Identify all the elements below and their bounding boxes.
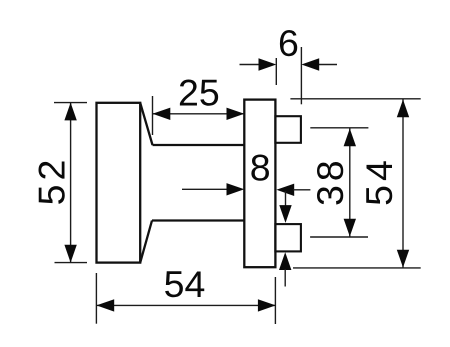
dimension 54 bottom: right arrowhead bbox=[258, 299, 276, 311]
svg-text:6: 6 bbox=[278, 22, 299, 64]
boss spindle up arrow bbox=[279, 252, 291, 270]
dimension 54 right: bottom arrowhead bbox=[397, 250, 409, 268]
svg-text:54: 54 bbox=[164, 263, 206, 305]
dimension 54 bottom: left arrowhead bbox=[96, 299, 114, 311]
dimension 8: right arrowhead pointing left bbox=[276, 184, 294, 196]
dimension 6: left extension line bbox=[275, 58, 277, 85]
dimension 8: left arrow line bbox=[182, 188, 228, 190]
dimension 25: extension line bbox=[152, 96, 154, 135]
dimension 52: top arrowhead bbox=[64, 103, 76, 121]
dimension 6: right line with inward arrow bbox=[319, 64, 337, 66]
dimension 54 bottom: right extension line bbox=[274, 277, 276, 324]
neck taper top diagonal bbox=[140, 103, 152, 145]
dimension 38: dimension line bbox=[349, 129, 351, 237]
dimension 54 bottom: dimension line bbox=[96, 304, 275, 306]
dimension 54 right: bottom extension line bbox=[293, 267, 421, 269]
svg-text:38: 38 bbox=[309, 156, 351, 206]
backplate outline bbox=[244, 100, 275, 268]
dimension 54 right: top arrowhead bbox=[397, 100, 409, 118]
dimension 54 bottom: left extension line bbox=[95, 273, 97, 324]
svg-text:54: 54 bbox=[358, 156, 400, 206]
dimension 25: dimension line bbox=[153, 113, 245, 115]
svg-text:8: 8 bbox=[250, 146, 271, 188]
dimension 8: left arrowhead pointing right bbox=[227, 183, 245, 195]
knob head outline bbox=[97, 103, 141, 263]
dimension 52: dimension line bbox=[70, 103, 72, 263]
neck top line bbox=[153, 144, 245, 146]
dimension 6: left line with inward arrow bbox=[240, 64, 260, 66]
svg-text:25: 25 bbox=[178, 72, 220, 114]
dimension 8: right arrow line bbox=[293, 189, 310, 191]
neck bottom line bbox=[152, 219, 244, 221]
neck taper bottom diagonal bbox=[140, 221, 152, 263]
dimension 54 right: top extension line bbox=[290, 98, 420, 100]
dimension 52: bottom arrowhead bbox=[64, 245, 76, 263]
boss spindle down arrow bbox=[285, 191, 287, 206]
top boss square bbox=[275, 116, 301, 143]
dimension 38: top extension line bbox=[310, 127, 368, 129]
dimension 38: bottom extension line bbox=[310, 236, 368, 238]
bottom boss square bbox=[275, 224, 301, 251]
dimension 6: right extension line bbox=[300, 47, 302, 104]
dimension 54 right: dimension line bbox=[402, 100, 404, 268]
dimension 25: left arrowhead bbox=[153, 108, 171, 120]
dimension 25: right arrowhead bbox=[227, 108, 245, 120]
dimension 38: bottom arrowhead bbox=[344, 219, 356, 237]
svg-text:52: 52 bbox=[31, 156, 73, 206]
dimension 38: top arrowhead bbox=[344, 129, 356, 147]
dimension 52: extension lines bbox=[54, 103, 87, 263]
